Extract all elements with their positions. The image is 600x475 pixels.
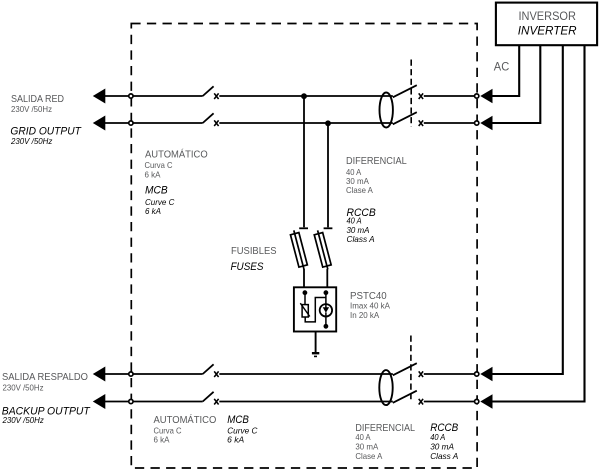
svg-text:MCB: MCB <box>227 414 249 426</box>
svg-text:6 kA: 6 kA <box>227 435 244 445</box>
svg-text:AC: AC <box>494 60 510 74</box>
svg-text:INVERTER: INVERTER <box>518 24 577 38</box>
svg-text:6 kA: 6 kA <box>145 206 161 216</box>
svg-text:230V /50Hz: 230V /50Hz <box>11 104 52 114</box>
svg-text:230V /50Hz: 230V /50Hz <box>3 383 44 393</box>
svg-text:40 A: 40 A <box>355 432 371 442</box>
svg-text:Clase A: Clase A <box>346 185 373 195</box>
svg-text:FUSES: FUSES <box>231 261 264 273</box>
svg-text:AUTOMÁTICO: AUTOMÁTICO <box>145 147 208 160</box>
svg-text:FUSIBLES: FUSIBLES <box>231 246 277 257</box>
svg-text:Class A: Class A <box>347 234 376 244</box>
svg-text:Clase A: Clase A <box>355 451 382 461</box>
svg-text:230V /50Hz: 230V /50Hz <box>10 136 53 146</box>
svg-text:230V /50Hz: 230V /50Hz <box>2 415 45 425</box>
svg-text:MCB: MCB <box>145 184 168 196</box>
svg-text:AUTOMÁTICO: AUTOMÁTICO <box>154 413 217 426</box>
svg-text:In 20 kA: In 20 kA <box>350 310 380 320</box>
svg-text:30 mA: 30 mA <box>355 442 378 452</box>
svg-text:DIFERENCIAL: DIFERENCIAL <box>346 156 407 167</box>
svg-text:6 kA: 6 kA <box>154 435 170 445</box>
svg-text:6 kA: 6 kA <box>145 169 161 179</box>
svg-text:30 mA: 30 mA <box>430 442 454 452</box>
svg-text:Class A: Class A <box>430 451 459 461</box>
svg-text:INVERSOR: INVERSOR <box>518 9 576 23</box>
svg-text:40 A: 40 A <box>430 432 445 442</box>
svg-text:SALIDA RESPALDO: SALIDA RESPALDO <box>2 372 88 383</box>
svg-text:Imax 40 kA: Imax 40 kA <box>350 300 390 310</box>
